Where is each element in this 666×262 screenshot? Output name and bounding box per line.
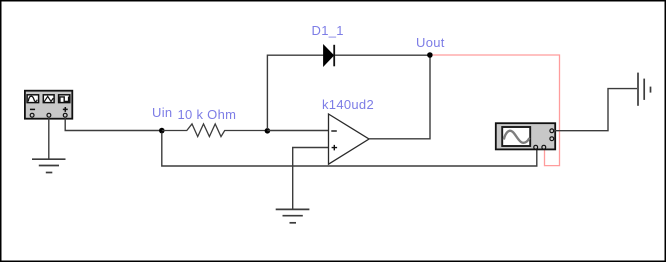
- ground (far right, rotated): [638, 73, 651, 106]
- svg-text:D1_1: D1_1: [312, 23, 344, 38]
- svg-text:Uout: Uout: [416, 35, 445, 50]
- node Uin (junction dot): [159, 128, 165, 134]
- op-amp U1 k140ud2: [329, 114, 370, 164]
- node junction (resistor / diode / op-amp input): [265, 128, 271, 134]
- wire: generator middle terminal to ground: [48, 117, 50, 159]
- resistor R1 10 k Ohm: [162, 124, 268, 137]
- ground (below op-amp + input): [276, 209, 310, 222]
- svg-text:k140ud2: k140ud2: [322, 97, 374, 112]
- wire: diode cathode to node Uout: [335, 54, 430, 56]
- wire: node Uin down and along bottom to oscilloscope bottom-left terminal: [162, 133, 537, 167]
- oscilloscope XSC1: [496, 123, 555, 149]
- diode D1_1: [324, 45, 335, 67]
- function generator XFG1: [25, 91, 72, 119]
- wire: junction up and across to diode anode: [267, 55, 323, 129]
- ground (below generator): [32, 159, 66, 172]
- wire: op-amp non-inverting input to ground drop: [293, 148, 329, 209]
- svg-text:Uin: Uin: [152, 105, 172, 120]
- wire: generator + terminal to node Uin: [65, 117, 162, 131]
- wire: junction to op-amp inverting input: [267, 130, 328, 132]
- svg-text:10 k Ohm: 10 k Ohm: [178, 107, 237, 122]
- wire (red): node Uout to oscilloscope bottom-right terminal: [433, 55, 560, 166]
- wire: oscilloscope right terminal to right ground: [554, 89, 637, 131]
- wire: op-amp output up to node Uout: [369, 56, 430, 139]
- node Uout: [427, 52, 433, 58]
